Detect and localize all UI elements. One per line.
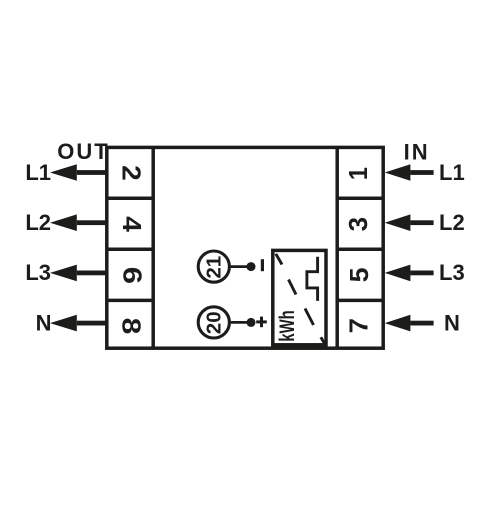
svg-text:IN: IN [404,140,430,165]
pulse output terminal 21 (S0 minus) [198,251,229,282]
node dot plus [247,318,256,327]
right column divider between terminal 3 and 5 [337,248,383,252]
svg-text:L1: L1 [25,160,51,185]
right terminal column separator [335,147,339,348]
svg-text:N: N [444,311,460,336]
plus polarity mark [256,320,267,323]
svg-text:1: 1 [345,167,373,180]
pulse output terminal 20 (S0 plus) [198,307,229,338]
meter diagonal dash 4 [321,337,325,344]
wire from terminal 20 to node [229,321,251,324]
minus polarity mark (rotated) [261,259,264,271]
left terminal column separator [151,147,155,348]
right column divider between terminal 1 and 3 [337,197,383,201]
meter diagonal dash 1 [276,254,282,265]
kWh meter box [273,250,326,344]
svg-text:7: 7 [344,318,373,333]
right column divider between terminal 5 and 7 [337,299,383,303]
wire arrow out of terminal 6 (L3 OUT) [50,265,77,282]
wire arrow into terminal 3 (L2 IN) [385,214,411,231]
svg-text:8: 8 [117,318,145,335]
meter diagonal dash 2 [289,280,297,295]
left column divider between terminal 4 and 6 [107,248,153,252]
svg-text:20: 20 [202,311,225,334]
device body outline (energy meter) [107,147,383,348]
left column divider between terminal 6 and 8 [107,299,153,303]
wire from terminal 21 to node [229,265,251,268]
svg-text:21: 21 [202,256,225,279]
meter diagonal dash 3 [305,309,314,326]
svg-text:L2: L2 [25,210,51,235]
wire arrow out of terminal 4 (L2 OUT) [50,214,77,231]
svg-text:3: 3 [345,217,373,231]
pulse waveform symbol [307,257,318,301]
svg-text:4: 4 [117,216,146,232]
svg-text:kWh: kWh [274,310,298,341]
svg-text:L3: L3 [439,260,465,285]
svg-text:L2: L2 [439,210,465,235]
node dot minus [247,262,256,271]
wire arrow into terminal 5 (L3 IN) [385,265,411,282]
wire arrow into terminal 1 (L1 IN) [385,164,411,181]
wire arrow out of terminal 2 (L1 OUT) [50,164,77,181]
wire arrow into terminal 7 (N IN) [385,315,411,332]
svg-text:6: 6 [117,267,146,284]
svg-text:5: 5 [345,267,374,282]
svg-text:L3: L3 [25,260,51,285]
svg-text:2: 2 [117,165,146,181]
svg-text:N: N [36,311,52,336]
left column divider between terminal 2 and 4 [107,197,153,201]
svg-text:L1: L1 [439,160,465,185]
svg-text:OUT: OUT [57,139,109,164]
wire arrow out of terminal 8 (N OUT) [50,315,77,332]
